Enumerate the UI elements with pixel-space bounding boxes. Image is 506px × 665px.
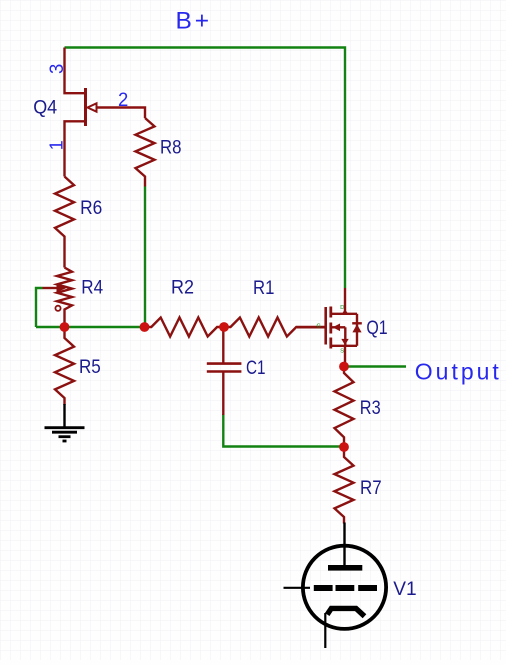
junction node R4/R5 bbox=[60, 322, 70, 332]
svg-text:G: G bbox=[317, 323, 321, 329]
resistor R1 bbox=[224, 318, 325, 337]
wire output bbox=[345, 365, 406, 367]
svg-text:3: 3 bbox=[47, 64, 68, 74]
svg-text:R8: R8 bbox=[160, 137, 182, 158]
resistor R2 bbox=[145, 318, 225, 337]
junction node R3/R7 bbox=[339, 442, 349, 452]
svg-text:R3: R3 bbox=[360, 398, 381, 419]
wire R4 wiper loop bbox=[36, 288, 43, 327]
svg-text:Output: Output bbox=[415, 359, 500, 385]
wire R8 bottom to mid rail bbox=[144, 187, 146, 328]
svg-text:C1: C1 bbox=[246, 358, 266, 379]
ground bbox=[45, 404, 85, 441]
svg-text:S: S bbox=[340, 348, 344, 354]
svg-text:D: D bbox=[340, 305, 344, 311]
potentiometer R4 bbox=[43, 268, 73, 328]
wire mid rail bbox=[36, 326, 145, 328]
svg-text:R1: R1 bbox=[253, 278, 274, 299]
svg-text:R5: R5 bbox=[79, 357, 101, 378]
resistor R3 bbox=[335, 367, 354, 448]
svg-text:R4: R4 bbox=[81, 277, 103, 298]
svg-text:1: 1 bbox=[47, 140, 67, 150]
svg-text:V1: V1 bbox=[393, 579, 416, 600]
svg-text:R7: R7 bbox=[360, 478, 382, 499]
resistor R5 bbox=[55, 327, 74, 405]
svg-text:Q1: Q1 bbox=[366, 318, 387, 339]
svg-text:Q4: Q4 bbox=[33, 97, 57, 118]
resistor R6 bbox=[55, 177, 74, 268]
resistor R8 bbox=[136, 118, 155, 187]
svg-text:2: 2 bbox=[118, 90, 128, 111]
svg-text:R2: R2 bbox=[171, 278, 194, 299]
wire C1 to R3/R7 node bbox=[223, 414, 344, 447]
capacitor C1 bbox=[207, 327, 242, 415]
vacuum tube V1 bbox=[284, 523, 387, 649]
resistor R7 bbox=[335, 447, 354, 524]
junction node R2/R1/C1 bbox=[219, 322, 229, 332]
MOSFET Q1 bbox=[297, 288, 362, 367]
transistor Q4 bbox=[65, 48, 146, 177]
junction node output bbox=[339, 362, 349, 372]
wire B+ rail top bbox=[65, 48, 346, 289]
junction node R8/rail bbox=[140, 322, 150, 332]
svg-text:R6: R6 bbox=[80, 198, 102, 219]
